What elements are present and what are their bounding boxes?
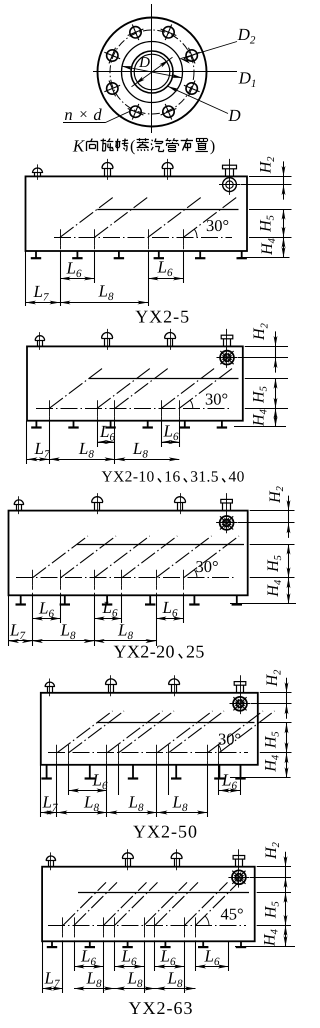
extension line [103, 941, 105, 993]
support foot [221, 421, 223, 428]
upper distribution pipe line [78, 892, 249, 894]
dimension H5 [283, 209, 285, 237]
ground reference line [230, 603, 296, 605]
dimension L8 [155, 988, 196, 990]
angle arc [194, 229, 197, 237]
support foot [149, 595, 151, 604]
angle arc [205, 916, 209, 926]
svg-text:30°: 30° [195, 557, 218, 576]
support foot [76, 251, 78, 258]
ground reference line [234, 426, 286, 428]
inclined steam pipe [119, 711, 175, 753]
support foot [175, 765, 177, 779]
support foot [127, 941, 129, 947]
support foot [199, 251, 201, 258]
inclined steam pipe [60, 197, 114, 238]
extension line [74, 941, 76, 971]
inclined steam pipe [95, 197, 149, 238]
dimension H4 [285, 925, 287, 946]
dimension L6 [155, 966, 185, 968]
support foot [240, 941, 242, 947]
angle arc [194, 570, 197, 578]
steam inlet fitting with flange [226, 329, 228, 368]
svg-text:×: × [79, 107, 87, 123]
extension line upper pipe [260, 722, 292, 724]
support foot [164, 941, 166, 947]
svg-text:K: K [72, 137, 86, 156]
angle arc [190, 400, 193, 408]
inclined steam pipe [184, 197, 238, 238]
extension line [240, 765, 242, 795]
extension line header [250, 577, 295, 579]
inclined steam pipe [63, 882, 106, 925]
steam header centerline [16, 577, 236, 579]
steam inlet fitting with flange [240, 675, 242, 714]
support foot [110, 421, 112, 428]
flange horizontal centerline extending to D1 label [93, 71, 237, 73]
dimension L6 [161, 442, 179, 444]
extension line [106, 765, 108, 817]
top nozzle [171, 684, 173, 692]
extension line header [249, 237, 292, 239]
svg-text:YX2-63: YX2-63 [129, 998, 194, 1018]
top nozzle [164, 168, 166, 176]
dimension L8 [115, 988, 156, 990]
top nozzle [108, 684, 110, 692]
upper distribution pipe line [97, 209, 238, 211]
dimension L7 [42, 988, 63, 990]
extension line steam pipe center [238, 522, 295, 524]
svg-text:45°: 45° [220, 905, 243, 924]
inclined steam pipe [208, 711, 264, 753]
inclined steam pipe [107, 711, 163, 753]
top nozzle [94, 502, 96, 510]
inclined steam pipe [196, 882, 239, 925]
extension line [218, 765, 220, 795]
steam inlet fitting with flange [229, 159, 231, 195]
dimension L6 [69, 790, 108, 792]
inclined steam pipe [148, 197, 202, 238]
inclined steam pipe [61, 536, 117, 578]
top nozzle [48, 861, 50, 867]
top nozzle [104, 168, 106, 176]
ground reference line [239, 257, 290, 259]
support foot [20, 595, 22, 604]
support foot [35, 421, 37, 428]
svg-text:30°: 30° [205, 390, 228, 409]
extension line [97, 421, 99, 447]
extension line [68, 765, 70, 795]
extension line [195, 941, 197, 971]
dimension L8 [60, 302, 148, 304]
steam pipe end circle [220, 351, 234, 365]
dimension L7 [27, 459, 49, 461]
dimension H5 [288, 544, 290, 578]
dimension L6 [60, 278, 95, 280]
dimension H4 [275, 408, 277, 427]
inner diameter dimension line D (35deg) [132, 57, 173, 86]
dimension L8 [74, 988, 115, 990]
inclined steam pipe [161, 368, 215, 409]
svg-text:30°: 30° [206, 216, 229, 235]
extension line [168, 765, 170, 795]
extension line upper pipe [257, 892, 291, 894]
top nozzle [167, 338, 169, 346]
svg-text:YX2-50: YX2-50 [133, 822, 198, 842]
support foot [240, 765, 242, 779]
extension line [161, 421, 163, 447]
leader from n x d to bolt hole [106, 111, 132, 123]
inclined steam pipe [32, 536, 88, 578]
support foot [118, 251, 120, 258]
inclined steam pipe [156, 536, 212, 578]
support foot [64, 595, 66, 604]
dimension H5 [285, 892, 287, 925]
steam inlet fitting with flange [238, 849, 240, 887]
extension line [60, 251, 62, 306]
inclined steam pipe [169, 711, 225, 753]
8 bolt holes n x d [186, 50, 197, 61]
top nozzle [177, 502, 179, 510]
support foot [158, 251, 160, 258]
extension line [25, 251, 27, 306]
extension line [154, 941, 156, 971]
dimension L6 [156, 618, 184, 620]
extension line tank top [260, 692, 292, 694]
top nozzle [47, 687, 49, 693]
tank body YX2-10 16 31.5 40 [27, 346, 243, 420]
extension line tank top [249, 176, 292, 178]
extension line [156, 765, 158, 817]
inclined steam pipe [74, 882, 117, 925]
upper distribution pipe line [89, 378, 238, 380]
support foot [147, 421, 149, 428]
inclined steam pipe [144, 882, 187, 925]
extension line [32, 595, 34, 646]
support foot [73, 421, 75, 428]
extension line steam pipe center [250, 877, 291, 879]
dimension H2 [283, 176, 285, 184]
inclined steam pipe [185, 882, 228, 925]
dimension L7 [41, 812, 57, 814]
dimension L7 [26, 302, 61, 304]
inclined steam pipe [115, 882, 158, 925]
svg-text:(: ( [130, 138, 135, 155]
support foot [184, 421, 186, 428]
flange circle D leader target [122, 42, 183, 103]
extension line steam pipe center [251, 703, 292, 705]
steam pipe outer circle [131, 51, 173, 93]
tank body YX2-63 [42, 867, 255, 942]
support foot [132, 765, 134, 779]
dimension L6 [115, 966, 145, 968]
extension line [8, 595, 10, 646]
support foot [218, 765, 220, 779]
extension line [56, 765, 58, 817]
top nozzle [174, 858, 176, 866]
extension line [114, 421, 116, 464]
extension line upper pipe [245, 378, 288, 380]
inclined steam pipe [94, 536, 150, 578]
extension line [179, 421, 181, 447]
extension line [114, 941, 116, 971]
svg-text:31.5: 31.5 [190, 469, 219, 486]
extension line [40, 765, 42, 817]
flange outer circle D2 [98, 18, 207, 127]
dimension H2 [285, 867, 287, 878]
svg-text:D: D [138, 55, 150, 71]
inclined steam pipe [115, 368, 169, 409]
steam inlet fitting with flange [226, 493, 228, 533]
svg-text:d: d [93, 105, 102, 124]
extension line steam pipe center [241, 184, 292, 186]
top nozzle [104, 338, 106, 346]
extension line [148, 251, 150, 306]
extension line [121, 595, 123, 623]
svg-text:n: n [64, 105, 72, 124]
svg-text:25: 25 [186, 642, 205, 662]
dimension L6 [196, 966, 229, 968]
extension line [60, 595, 62, 623]
dimension L6 [32, 618, 60, 620]
inclined steam pipe [184, 536, 240, 578]
tank body YX2-5 [26, 176, 248, 251]
support foot [89, 765, 91, 779]
upper distribution pipe line [77, 544, 244, 546]
support foot [202, 941, 204, 947]
extension line [42, 941, 44, 993]
dimension H2 [288, 511, 290, 523]
top nozzle [37, 340, 39, 346]
extension line tank top [257, 866, 291, 868]
dimension H2 [275, 346, 277, 357]
svg-text:YX2-10: YX2-10 [102, 469, 155, 486]
inclined steam pipe [104, 882, 147, 925]
extension line [94, 595, 96, 646]
top nozzle [16, 505, 18, 511]
svg-text:YX2-20: YX2-20 [114, 642, 175, 662]
tank body YX2-50 [41, 693, 258, 765]
dimension L8 [32, 640, 94, 642]
inclined steam pipe [69, 711, 125, 753]
ground reference line [235, 946, 295, 948]
dimension L8 [94, 640, 156, 642]
extension line steam pipe center [238, 357, 288, 359]
dimension H4 [286, 753, 288, 778]
dimension L6 [148, 278, 184, 280]
svg-text:D: D [227, 106, 241, 125]
steam pipe end circle [220, 516, 234, 530]
dimension L8 [157, 812, 208, 814]
extension line header [260, 752, 292, 754]
ground reference line [230, 777, 291, 779]
dimension H4 [288, 578, 290, 604]
dimension H5 [286, 723, 288, 753]
dimension L7 [9, 640, 33, 642]
extension line upper pipe [249, 209, 292, 211]
inclined steam pipe [57, 711, 113, 753]
extension line [207, 765, 209, 817]
top nozzle [125, 858, 127, 866]
dimension H2 [286, 693, 288, 704]
inclined steam pipe [122, 536, 178, 578]
steam pipe end circle [232, 870, 246, 884]
extension line [49, 421, 51, 464]
dimension L8 [57, 812, 107, 814]
leader for label D [168, 86, 228, 113]
inclined steam pipe [179, 368, 233, 409]
top nozzle [34, 173, 36, 176]
extension line [184, 941, 186, 993]
support foot [46, 765, 48, 779]
inclined steam pipe [157, 711, 213, 753]
dimension L8 [115, 459, 179, 461]
upper distribution pipe line [97, 722, 255, 724]
extension line upper pipe [250, 544, 295, 546]
steam pipe end circle [233, 697, 247, 711]
inclined steam pipe [49, 368, 103, 409]
extension line [228, 941, 230, 971]
dimension L8 [49, 459, 115, 461]
dimension L6 [219, 790, 240, 792]
steam header centerline [48, 752, 248, 754]
steam header centerline [54, 237, 232, 239]
tank body YX2-20 25 [9, 511, 248, 596]
support foot [51, 941, 53, 947]
extension line [183, 595, 185, 623]
dimension L6 [97, 442, 115, 444]
extension line [183, 251, 185, 283]
inclined steam pipe [97, 368, 151, 409]
svg-text:YX2-5: YX2-5 [135, 307, 190, 327]
support foot [106, 595, 108, 604]
extension line header [257, 925, 291, 927]
extension line [94, 251, 96, 283]
extension line [62, 941, 64, 993]
diameter dimension of middle circle [122, 66, 183, 78]
extension line tank top [245, 346, 288, 348]
steam pipe bore circle [134, 54, 170, 90]
svg-text:30°: 30° [218, 730, 241, 749]
dimension L6 [94, 618, 122, 620]
svg-text:16: 16 [164, 469, 180, 486]
leader for label D2 [180, 42, 237, 59]
support foot [193, 595, 195, 604]
inclined steam pipe [219, 711, 275, 753]
dimension L6 [74, 966, 104, 968]
extension line [144, 941, 146, 993]
svg-text:): ) [210, 138, 215, 155]
flange bolt circle (chain) [110, 30, 194, 114]
dimension H5 [275, 378, 277, 408]
dimension H4 [283, 237, 285, 257]
support foot [241, 251, 243, 258]
extension line tank top [250, 510, 295, 512]
steam header centerline [36, 408, 230, 410]
extension line [118, 765, 120, 795]
extension line [26, 421, 28, 464]
extension line [156, 595, 158, 646]
dimension L8 [107, 812, 157, 814]
extension line header [245, 408, 288, 410]
svg-text:40: 40 [229, 469, 245, 486]
inclined steam pipe [155, 882, 198, 925]
angle arc [218, 745, 221, 753]
support foot [89, 941, 91, 947]
steam pipe end circle [223, 178, 237, 192]
support foot [35, 251, 37, 258]
steam header centerline [48, 925, 246, 927]
support foot [236, 595, 238, 604]
flange view K: vertical centerline [151, 4, 153, 133]
